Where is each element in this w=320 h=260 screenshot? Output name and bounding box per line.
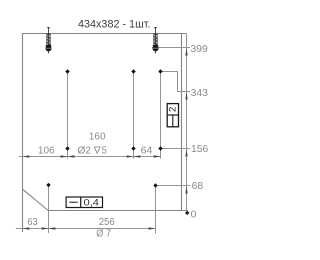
arrow 68	[185, 186, 187, 194]
hole dot A3	[158, 69, 162, 73]
arrow 64 right	[154, 155, 161, 157]
svg-text:Ø2: Ø2	[78, 145, 92, 157]
arrow 160 left	[68, 155, 75, 157]
hole dot C1	[46, 183, 50, 187]
extension line x67	[67, 72, 69, 159]
svg-text:0,4: 0,4	[84, 198, 100, 209]
hole dot C2	[153, 183, 157, 187]
svg-text:106: 106	[38, 145, 55, 157]
svg-text:434x382 - 1шт.: 434x382 - 1шт.	[78, 18, 151, 30]
arrow 256 right	[149, 227, 156, 229]
tolerance frame 0,4	[66, 197, 102, 209]
hole dot A1	[65, 69, 69, 73]
hole dot B2	[131, 146, 135, 150]
svg-text:68: 68	[192, 180, 204, 192]
svg-text:399: 399	[191, 43, 208, 55]
hole dot A2	[131, 69, 135, 73]
svg-text:0: 0	[191, 208, 197, 220]
node 0 datum dot	[185, 211, 189, 215]
arrow 106 left	[23, 155, 30, 157]
dimension line bottom row	[16, 228, 156, 230]
dimension line mid row	[19, 156, 161, 158]
wire leader 343 jog	[161, 72, 191, 92]
arrow 160 right	[127, 155, 134, 157]
arrow 343	[185, 92, 187, 100]
svg-text:63: 63	[27, 216, 38, 228]
screw B2 right	[152, 27, 158, 53]
screw B1 left	[45, 27, 51, 53]
arrow 156	[185, 149, 187, 157]
svg-text:2: 2	[167, 107, 178, 112]
arrow 64 left	[134, 155, 141, 157]
svg-text:5: 5	[102, 145, 107, 157]
svg-text:343: 343	[191, 87, 208, 99]
extension line x155 bottom	[155, 186, 157, 234]
hole dot B1	[65, 146, 69, 150]
svg-text:160: 160	[89, 131, 106, 143]
wire leader 68	[156, 185, 191, 187]
plate outline	[23, 34, 188, 233]
arrow 63 left	[23, 227, 30, 229]
wire leader 156	[161, 148, 191, 150]
extension line x133	[133, 72, 135, 159]
arrow 63 right	[42, 227, 49, 229]
extension line x49 bottom	[48, 185, 50, 233]
arrow 256 left	[49, 227, 56, 229]
arrow 106 right	[61, 155, 68, 157]
svg-text:Ø 7: Ø 7	[96, 227, 111, 239]
connector X2 box	[167, 104, 178, 127]
svg-text:156: 156	[191, 143, 208, 155]
ordinate baseline	[186, 34, 188, 213]
arrow 399	[185, 48, 187, 56]
svg-text:64: 64	[141, 144, 153, 156]
extension line x160	[160, 72, 162, 159]
hole dot B3	[158, 146, 162, 150]
wire leader 399	[152, 47, 190, 49]
